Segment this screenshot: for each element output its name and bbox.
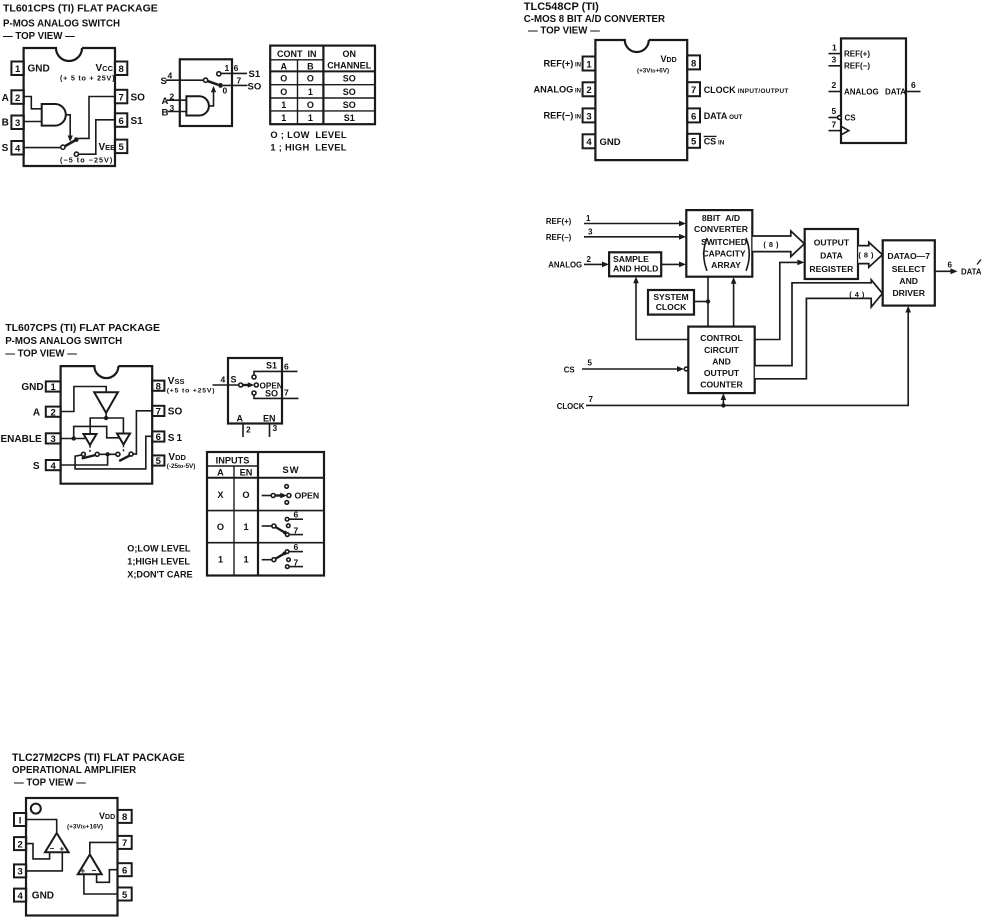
IC package U2 TL607CPS body xyxy=(61,366,153,484)
svg-text:2: 2 xyxy=(587,255,592,264)
output DATA line xyxy=(935,260,982,277)
svg-text:7: 7 xyxy=(294,526,299,536)
pole contact circle xyxy=(239,383,243,387)
svg-text:(-25to-5V): (-25to-5V) xyxy=(167,463,196,470)
pin 7 xyxy=(687,82,700,96)
wire S1 contact out xyxy=(254,371,298,375)
svg-text:−: − xyxy=(50,844,55,853)
pin 4 xyxy=(583,134,596,148)
svg-text:6: 6 xyxy=(294,542,299,552)
arrowhead up xyxy=(211,86,216,93)
pin line 5 CS with bubble xyxy=(829,117,838,119)
svg-text:( 8 ): ( 8 ) xyxy=(858,251,874,260)
table row 2 xyxy=(280,87,355,97)
svg-text:+: + xyxy=(60,845,65,854)
dashed control INV2 xyxy=(89,446,91,453)
svg-text:(+3Vto+6V): (+3Vto+6V) xyxy=(637,68,669,75)
pin 3 xyxy=(583,108,596,122)
IC package U3 TLC548CP body xyxy=(595,40,687,160)
svg-text:ENABLE: ENABLE xyxy=(1,434,42,445)
svg-text:TLC548CP (TI): TLC548CP (TI) xyxy=(524,1,599,13)
pin 7 xyxy=(152,406,164,418)
svg-text:1 ; HIGH LEVEL: 1 ; HIGH LEVEL xyxy=(270,143,346,153)
inverter INV2 xyxy=(84,434,97,445)
svg-text:8BIT A/D: 8BIT A/D xyxy=(702,213,740,223)
svg-text:7: 7 xyxy=(237,76,242,86)
svg-text:4: 4 xyxy=(51,461,57,472)
svg-text:OPERATIONAL AMPLIFIER: OPERATIONAL AMPLIFIER xyxy=(12,765,136,776)
pin 8 xyxy=(687,55,700,69)
pin 2 xyxy=(11,90,23,104)
svg-text:A: A xyxy=(33,407,40,418)
wire SO contact out xyxy=(254,395,299,398)
svg-text:1: 1 xyxy=(225,63,230,73)
wire pin6 to opamp B inverting input xyxy=(97,870,118,883)
clock triangle xyxy=(841,126,849,135)
wire contact1 to S1 xyxy=(221,72,247,74)
svg-text:ANALOG: ANALOG xyxy=(844,87,879,96)
svg-text:6: 6 xyxy=(284,362,289,372)
wire AND output to switch control xyxy=(66,115,70,137)
svg-text:(+3Vto+16V): (+3Vto+16V) xyxy=(67,824,103,831)
svg-text:— TOP VIEW —: — TOP VIEW — xyxy=(5,349,77,360)
AND gate G1 xyxy=(42,104,66,126)
svg-text:AND HOLD: AND HOLD xyxy=(613,264,658,274)
IC package U1 TL601CPS body xyxy=(24,48,115,166)
block: output data register xyxy=(805,229,858,279)
svg-text:7: 7 xyxy=(122,838,127,849)
table row 3 xyxy=(281,100,355,110)
AND gate G2 xyxy=(186,96,209,115)
svg-text:SO: SO xyxy=(265,389,278,399)
svg-text:TLC27M2CPS (TI) FLAT PACKAGE: TLC27M2CPS (TI) FLAT PACKAGE xyxy=(12,752,185,764)
switch lever xyxy=(208,81,219,85)
svg-text:4: 4 xyxy=(586,137,592,148)
arrowhead to OPEN xyxy=(248,382,254,388)
svg-text:3: 3 xyxy=(273,423,278,433)
title TL601CPS section xyxy=(3,3,158,43)
svg-text:SO: SO xyxy=(248,82,262,93)
svg-text:7: 7 xyxy=(118,92,123,103)
svg-text:TL607CPS (TI) FLAT PACKAGE: TL607CPS (TI) FLAT PACKAGE xyxy=(5,322,160,334)
svg-text:S: S xyxy=(161,76,167,87)
wire distribution INV1 out xyxy=(90,418,123,434)
row 1 switch open symbol xyxy=(262,485,319,505)
svg-text:S: S xyxy=(2,143,9,154)
wire A input xyxy=(167,99,186,101)
switch SW1 pole contact xyxy=(61,145,65,149)
pin line 3 REF(-) xyxy=(829,65,842,67)
pin line 7 clock input xyxy=(829,130,842,132)
pin 4 xyxy=(46,460,61,472)
svg-text:ARRAY: ARRAY xyxy=(711,260,741,270)
svg-text:A: A xyxy=(162,96,169,107)
svg-text:SO: SO xyxy=(168,407,183,418)
svg-text:1: 1 xyxy=(281,113,286,123)
svg-text:S1: S1 xyxy=(131,116,144,127)
svg-text:GND: GND xyxy=(32,891,54,902)
svg-text:— TOP VIEW —: — TOP VIEW — xyxy=(528,26,600,37)
svg-text:4: 4 xyxy=(15,144,21,155)
svg-text:5: 5 xyxy=(588,359,593,368)
wire sample-hold to A/D xyxy=(661,262,686,268)
svg-text:O;LOW LEVEL: O;LOW LEVEL xyxy=(127,544,191,554)
block: control circuit and output counter xyxy=(688,327,754,394)
pin line 2 xyxy=(242,424,244,438)
block: 8bit A/D converter xyxy=(686,210,752,277)
svg-text:DATA: DATA xyxy=(820,251,843,261)
svg-text:1: 1 xyxy=(832,43,837,53)
svg-text:3: 3 xyxy=(832,55,837,65)
truth table CONT IN / ON CHANNEL xyxy=(270,46,375,125)
title TLC548CP section xyxy=(524,1,665,37)
svg-text:SO: SO xyxy=(343,74,356,84)
svg-text:O: O xyxy=(280,87,287,97)
svg-text:B: B xyxy=(307,61,314,71)
inverter INV3 xyxy=(117,434,130,445)
wire pin2 A to inverter1 xyxy=(61,387,106,412)
bus arrow (4) control to driver xyxy=(755,280,883,379)
switch SW1 open contact (S1) xyxy=(74,152,78,156)
truth table INPUTS / SW xyxy=(207,452,324,576)
pin 5 xyxy=(115,140,127,154)
svg-text:1;HIGH LEVEL: 1;HIGH LEVEL xyxy=(127,557,190,567)
svg-text:VCC: VCC xyxy=(96,63,114,74)
svg-text:6: 6 xyxy=(691,111,696,122)
svg-text:SW: SW xyxy=(282,465,299,476)
wire open contact to pin6 S1 xyxy=(79,120,115,154)
pin 1 xyxy=(46,381,61,393)
input CS xyxy=(564,359,688,375)
svg-text:5: 5 xyxy=(691,137,697,148)
svg-text:3: 3 xyxy=(51,434,56,445)
block: system clock xyxy=(648,290,694,315)
table row 1 xyxy=(280,74,355,84)
svg-text:AND: AND xyxy=(899,276,918,286)
svg-text:S: S xyxy=(231,375,237,385)
op-amp B xyxy=(78,854,102,874)
svg-text:1: 1 xyxy=(243,522,248,532)
junction dot ENABLE xyxy=(72,436,76,440)
svg-text:1: 1 xyxy=(586,59,592,70)
SO contact circle xyxy=(252,391,256,395)
OPEN contact circle xyxy=(254,383,258,387)
svg-text:6: 6 xyxy=(234,63,239,73)
svg-text:REF(+): REF(+) xyxy=(844,49,870,58)
svg-text:A: A xyxy=(281,61,288,71)
svg-text:CS: CS xyxy=(845,114,857,123)
svg-text:S 1: S 1 xyxy=(168,433,183,444)
svg-text:2: 2 xyxy=(246,425,251,435)
junction dot S common xyxy=(105,452,109,456)
wire B input xyxy=(168,111,187,113)
wire pin6 S1 route xyxy=(75,436,152,469)
svg-text:SELECT: SELECT xyxy=(892,264,927,274)
wire pin2 to AND gate xyxy=(24,97,42,109)
pin 3 xyxy=(46,433,61,445)
svg-text:CAPACITY: CAPACITY xyxy=(702,249,746,259)
pin 2 xyxy=(14,837,26,850)
block: data0-7 select and driver xyxy=(883,240,935,305)
svg-text:8: 8 xyxy=(122,812,127,823)
svg-text:4: 4 xyxy=(168,71,173,81)
svg-text:S1: S1 xyxy=(266,361,277,371)
svg-text:SYSTEM: SYSTEM xyxy=(653,292,688,302)
svg-text:3: 3 xyxy=(588,228,593,237)
wire pin3 ENABLE xyxy=(61,438,85,440)
svg-text:(+5 to +25V): (+5 to +25V) xyxy=(167,388,216,395)
svg-text:O: O xyxy=(307,74,314,84)
wire INV1 output xyxy=(105,413,107,418)
svg-text:3: 3 xyxy=(17,867,22,878)
svg-text:OUTPUT: OUTPUT xyxy=(704,368,740,378)
pin 7 xyxy=(115,90,127,104)
svg-text:SAMPLE: SAMPLE xyxy=(613,254,649,264)
wire system clock junction xyxy=(694,277,710,327)
S1 contact circle xyxy=(252,375,256,379)
wire control to sample-hold xyxy=(633,277,688,340)
lever with arrow xyxy=(243,384,249,386)
svg-text:GND: GND xyxy=(28,64,50,75)
pin 6 xyxy=(687,108,700,122)
svg-text:CLOCK: CLOCK xyxy=(557,402,585,411)
svg-text:+: + xyxy=(81,867,86,876)
svg-text:8: 8 xyxy=(118,64,123,75)
svg-text:S1: S1 xyxy=(249,69,261,80)
wire control to output data register xyxy=(755,260,805,340)
svg-text:( 8 ): ( 8 ) xyxy=(763,240,779,249)
svg-text:S1: S1 xyxy=(344,113,355,123)
svg-text:REGISTER: REGISTER xyxy=(809,264,854,274)
svg-text:2: 2 xyxy=(15,93,20,104)
left switch lever closed xyxy=(82,455,96,459)
svg-text:7: 7 xyxy=(589,395,594,404)
svg-text:X: X xyxy=(217,490,224,500)
svg-text:1: 1 xyxy=(15,64,21,75)
svg-text:3: 3 xyxy=(586,111,591,122)
input REF(-) xyxy=(546,228,686,243)
switch symbol box TL607 xyxy=(228,358,282,424)
switch row wire xyxy=(99,453,116,455)
svg-text:O: O xyxy=(242,490,249,500)
svg-text:DRIVER: DRIVER xyxy=(892,288,925,298)
pin 4 xyxy=(11,141,23,155)
svg-text:O: O xyxy=(307,100,314,110)
svg-text:A: A xyxy=(2,93,9,104)
wire pin5 to opamp B noninverting input xyxy=(84,874,118,894)
svg-text:8: 8 xyxy=(691,58,696,69)
svg-text:P-MOS ANALOG SWITCH: P-MOS ANALOG SWITCH xyxy=(3,19,120,30)
wire pin7 to opamp B output xyxy=(90,842,118,853)
svg-text:A: A xyxy=(237,414,244,424)
svg-text:0: 0 xyxy=(223,86,228,96)
svg-text:2: 2 xyxy=(832,80,837,90)
contact circle right pole xyxy=(116,452,120,456)
svg-text:1: 1 xyxy=(308,87,313,97)
row 2 switch closed to 7 xyxy=(262,510,303,537)
svg-text:1: 1 xyxy=(218,555,223,565)
junction dot INV1 out xyxy=(104,416,108,420)
svg-text:ON: ON xyxy=(342,49,356,59)
svg-text:O: O xyxy=(217,522,224,532)
op-amp A xyxy=(45,833,69,852)
block: sample and hold xyxy=(609,252,661,276)
table row 2 values xyxy=(217,522,249,532)
svg-text:5: 5 xyxy=(832,106,837,116)
pin 2 xyxy=(583,82,596,96)
wire pin1 to opamp A output xyxy=(26,820,57,833)
svg-text:CHANNEL: CHANNEL xyxy=(327,61,372,71)
pin 8 xyxy=(118,810,132,823)
table row 3 values xyxy=(218,555,249,565)
wire control to A/D xyxy=(731,277,737,327)
svg-text:TL601CPS (TI) FLAT PACKAGE: TL601CPS (TI) FLAT PACKAGE xyxy=(3,3,158,15)
switch SW1 closed contact dot (SO) xyxy=(74,137,79,142)
svg-text:1: 1 xyxy=(51,382,57,393)
svg-text:VSS: VSS xyxy=(168,376,185,387)
svg-text:1: 1 xyxy=(281,100,286,110)
closed contact dot 0 xyxy=(218,83,223,88)
svg-text:SWITCHED: SWITCHED xyxy=(701,237,747,247)
svg-text:GND: GND xyxy=(21,382,43,393)
svg-text:2: 2 xyxy=(586,85,591,96)
table row 1 values xyxy=(217,490,249,500)
svg-text:(−5 to −25V): (−5 to −25V) xyxy=(60,156,113,165)
functional symbol box TLC548 xyxy=(841,38,906,143)
svg-text:4: 4 xyxy=(17,891,23,902)
input CLOCK xyxy=(557,306,911,411)
svg-text:B: B xyxy=(2,118,9,129)
IC package U4 TLC27M2CPS body xyxy=(26,798,118,916)
svg-text:— TOP VIEW —: — TOP VIEW — xyxy=(14,778,86,789)
svg-text:7: 7 xyxy=(284,388,289,398)
svg-text:O: O xyxy=(280,74,287,84)
dashed control INV3 xyxy=(123,445,125,453)
pin 6 xyxy=(118,863,132,876)
pin 5 xyxy=(118,888,132,901)
svg-text:1: 1 xyxy=(586,214,591,223)
svg-text:SO: SO xyxy=(343,100,356,110)
svg-text:CONVERTER: CONVERTER xyxy=(694,224,749,234)
svg-text:7: 7 xyxy=(156,407,161,418)
pin 4 xyxy=(14,889,26,902)
svg-text:VDD: VDD xyxy=(168,452,186,463)
input REF(+) xyxy=(546,214,686,226)
pin 2 xyxy=(46,407,61,419)
svg-text:SO: SO xyxy=(343,87,356,97)
svg-text:DATA: DATA xyxy=(885,87,906,96)
svg-text:AND: AND xyxy=(712,357,731,367)
pin 5 xyxy=(687,134,700,148)
pin line 1 REF(+) xyxy=(829,53,842,55)
svg-text:6: 6 xyxy=(118,116,123,127)
pin 1 xyxy=(11,62,23,76)
title TL607CPS section xyxy=(5,322,160,360)
svg-text:5: 5 xyxy=(156,456,162,467)
contact circle S1 throw xyxy=(81,452,85,456)
logic symbol box TL601 xyxy=(180,59,232,126)
svg-text:( 4 ): ( 4 ) xyxy=(849,290,865,299)
svg-text:INPUTS: INPUTS xyxy=(216,456,250,466)
svg-text:5: 5 xyxy=(122,890,128,901)
svg-text:REF(−): REF(−) xyxy=(844,62,870,71)
svg-text:6: 6 xyxy=(122,866,127,877)
svg-text:SO: SO xyxy=(131,92,146,103)
pin 1 marker circle xyxy=(31,804,41,814)
svg-text:A: A xyxy=(217,468,224,478)
svg-text:CONTROL: CONTROL xyxy=(700,333,743,343)
pin line 2 ANALOG xyxy=(829,91,842,93)
svg-text:COUNTER: COUNTER xyxy=(700,380,743,390)
wire pin4 S to common xyxy=(61,457,108,466)
input ANALOG xyxy=(548,255,609,269)
svg-text:1: 1 xyxy=(243,555,248,565)
svg-text:3: 3 xyxy=(15,118,20,129)
svg-text:2: 2 xyxy=(17,839,22,850)
bus arrow (8) register to driver xyxy=(858,242,882,267)
svg-text:7: 7 xyxy=(832,120,837,130)
row 3 switch closed to 6 xyxy=(262,542,303,568)
svg-text:CLOCK: CLOCK xyxy=(656,302,687,312)
svg-text:EN: EN xyxy=(263,414,276,424)
pin 6 xyxy=(152,431,164,443)
wire pin3 to opamp A noninverting input xyxy=(26,852,62,871)
svg-text:OUTPUT: OUTPUT xyxy=(814,238,850,248)
svg-text:EN: EN xyxy=(240,468,253,478)
wire contact to pin7 SO xyxy=(78,97,115,139)
pin 8 xyxy=(152,381,164,393)
wire S input xyxy=(166,79,204,81)
wire ENABLE over-route to INV3 xyxy=(74,426,120,438)
right switch lever open xyxy=(119,456,130,462)
svg-text:I: I xyxy=(19,815,22,826)
svg-text:2: 2 xyxy=(51,407,56,418)
svg-text:REF(+): REF(+) xyxy=(546,217,572,226)
svg-text:B: B xyxy=(162,107,169,118)
svg-text:ANALOG: ANALOG xyxy=(548,260,582,269)
arrowhead down to switch xyxy=(68,136,73,143)
wire pin3 to AND gate xyxy=(24,121,42,123)
svg-text:6: 6 xyxy=(948,261,953,270)
table row 4 xyxy=(281,113,354,123)
svg-text:CiRCUIT: CiRCUIT xyxy=(704,345,740,355)
pin 3 xyxy=(11,116,23,130)
bus arrow (8) A/D to register xyxy=(753,231,805,257)
wire contact0 to SO xyxy=(223,84,248,86)
svg-text:7: 7 xyxy=(294,557,299,567)
svg-text:6: 6 xyxy=(156,432,161,443)
svg-text:O ; LOW LEVEL: O ; LOW LEVEL xyxy=(270,130,347,140)
pin 1 xyxy=(583,57,596,71)
svg-text:C-MOS 8 BIT A/D CONVERTER: C-MOS 8 BIT A/D CONVERTER xyxy=(524,14,665,25)
svg-text:6: 6 xyxy=(911,80,916,90)
pin 5 xyxy=(152,455,164,467)
pin 3 xyxy=(14,864,26,877)
wire pin7 SO route xyxy=(133,411,152,454)
pin 6 xyxy=(115,113,127,127)
wire S input xyxy=(213,384,239,386)
svg-text:(+ 5 to + 25V): (+ 5 to + 25V) xyxy=(60,74,115,83)
svg-text:5: 5 xyxy=(118,142,124,153)
svg-text:S: S xyxy=(33,461,40,472)
svg-text:X;DON'T CARE: X;DON'T CARE xyxy=(127,570,192,580)
svg-text:CS: CS xyxy=(564,365,575,374)
contact circle SO throw xyxy=(129,452,133,456)
contact circle left pole xyxy=(95,452,99,456)
inverter INV1 xyxy=(94,392,118,413)
wire AND output to switch control xyxy=(209,90,214,106)
svg-text:6: 6 xyxy=(294,510,299,520)
